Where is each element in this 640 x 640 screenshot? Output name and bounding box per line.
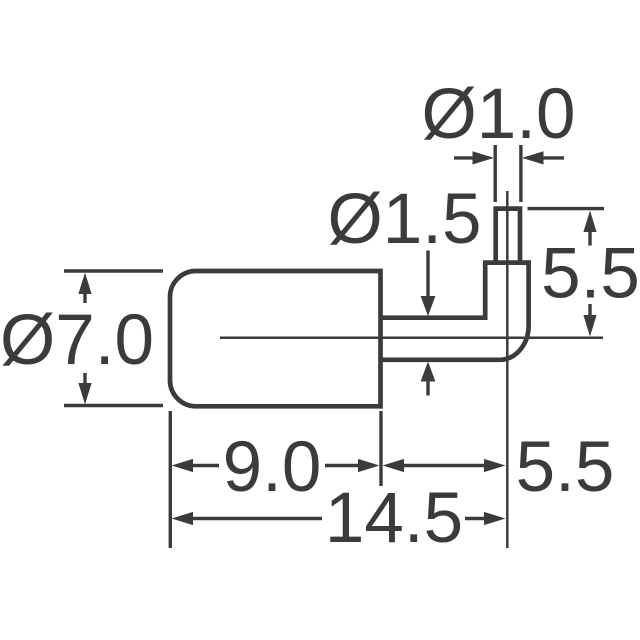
5.5 bottom connecting line bbox=[402, 464, 487, 467]
dia 7.0 bottom extension line bbox=[64, 404, 163, 407]
svg-text:5.5: 5.5 bbox=[541, 235, 640, 314]
dia 1.0 right extension line bbox=[519, 145, 522, 202]
dia 7.0 down arrow bbox=[78, 373, 91, 405]
svg-text:Ø1.0: Ø1.0 bbox=[422, 75, 576, 154]
lead top edge and inner elbow corner bbox=[381, 263, 486, 318]
dia 7.0 top extension line bbox=[64, 269, 163, 272]
5.5 right down arrow bbox=[583, 304, 596, 337]
lead thickness up arrow bbox=[421, 362, 436, 396]
5.5 bottom right arrow bbox=[484, 459, 506, 472]
dia 1.0 left arrow bbox=[454, 151, 494, 164]
svg-text:Ø1.5: Ø1.5 bbox=[328, 180, 482, 259]
9.0 left arrow bbox=[172, 459, 220, 472]
14.5 left arrow bbox=[172, 512, 323, 525]
component body outline bbox=[170, 271, 381, 406]
lead right edge with bend and bottom edge bbox=[381, 260, 529, 359]
dia 1.0 right arrow bbox=[522, 151, 564, 164]
5.5 right top extension line bbox=[528, 207, 605, 210]
vertical center line / extension line bbox=[506, 191, 509, 548]
svg-text:5.5: 5.5 bbox=[516, 428, 615, 507]
dia 1.0 left extension line bbox=[494, 145, 497, 202]
dia 1.5 down arrow bbox=[421, 251, 436, 317]
middle bottom extension line bbox=[379, 411, 382, 486]
dia 7.0 up arrow bbox=[78, 273, 91, 304]
9.0 right arrow bbox=[325, 459, 380, 472]
pin tip outline bbox=[496, 209, 520, 265]
svg-text:9.0: 9.0 bbox=[223, 428, 322, 507]
svg-text:14.5: 14.5 bbox=[325, 479, 463, 558]
14.5 right arrow bbox=[465, 512, 506, 525]
5.5 right up arrow bbox=[583, 211, 596, 246]
left bottom extension line bbox=[169, 411, 172, 548]
elbow shoulder bar bbox=[483, 260, 531, 265]
5.5 bottom left arrow bbox=[383, 459, 405, 472]
svg-text:Ø7.0: Ø7.0 bbox=[0, 301, 154, 380]
horizontal center line bbox=[220, 337, 603, 340]
